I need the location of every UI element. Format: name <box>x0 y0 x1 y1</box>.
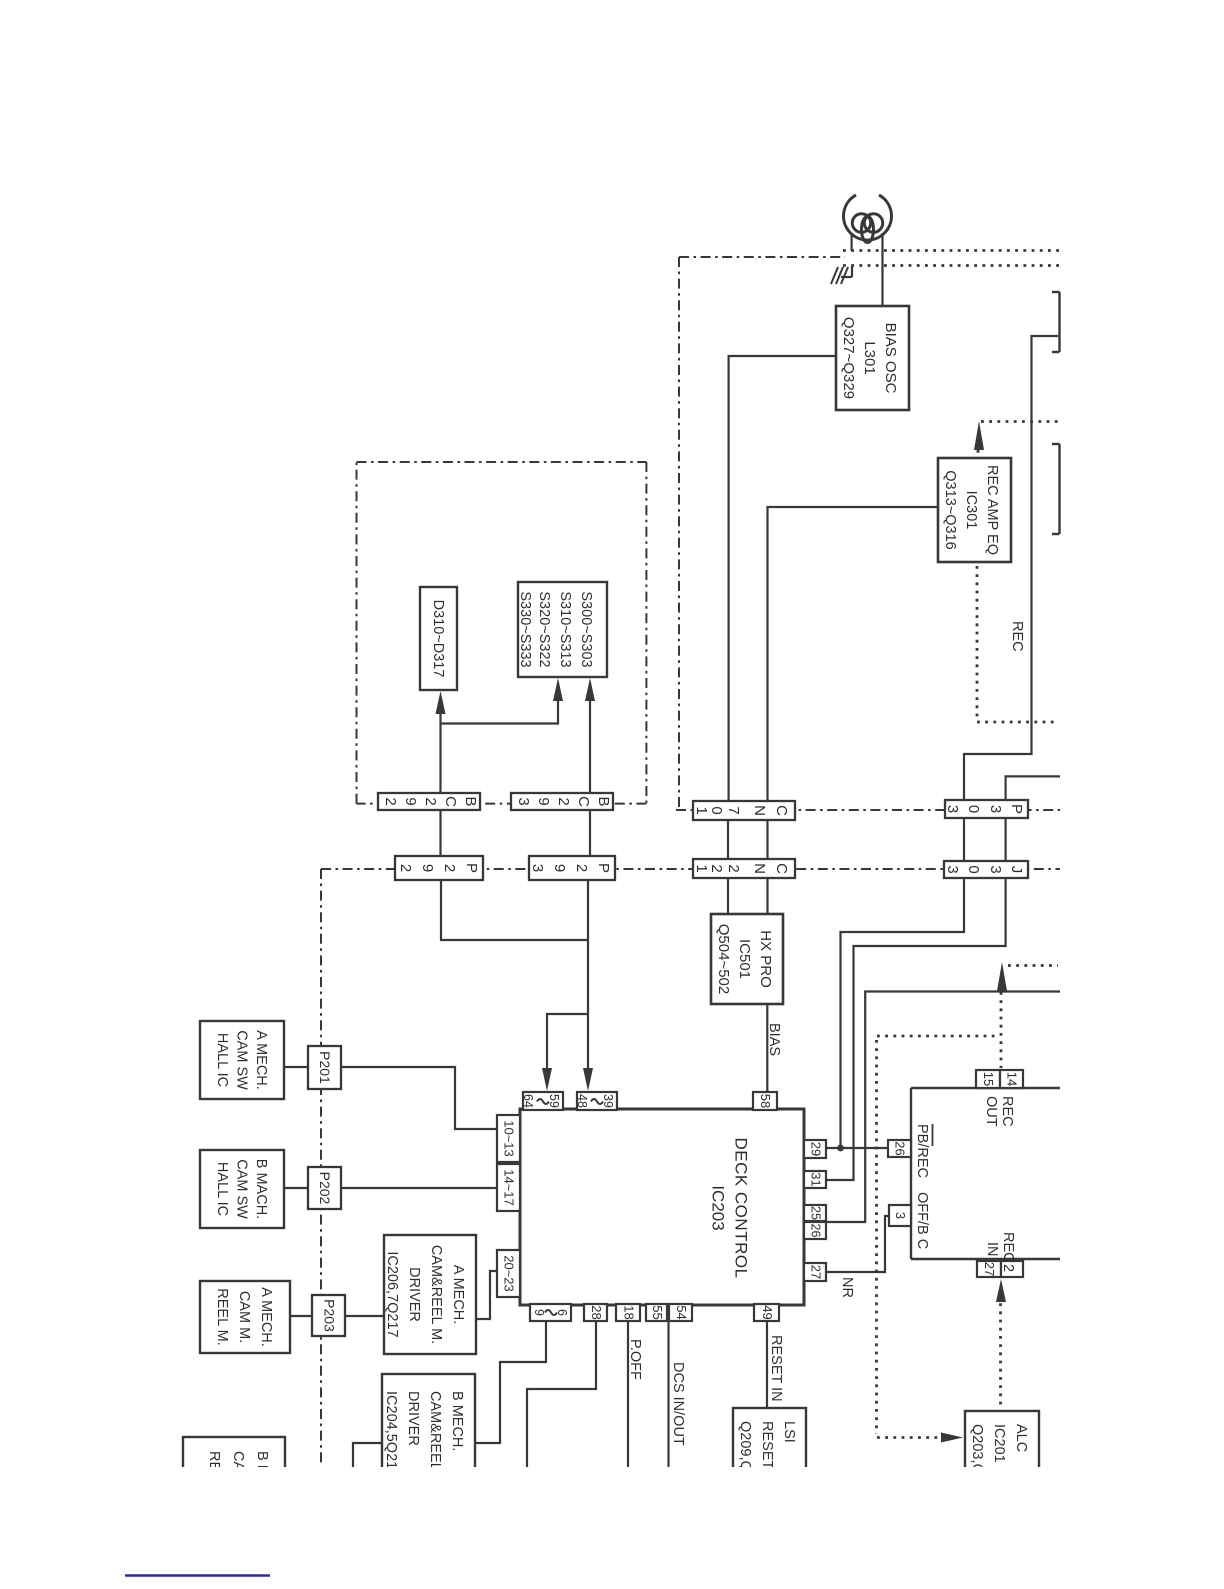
arrow down into pin 59-64 <box>542 1068 552 1091</box>
dotted path long vertical to ALC block <box>875 1040 878 1434</box>
svg-text:REC: REC <box>1000 1232 1016 1263</box>
wire IC203 pin 29 to amp pin 26 <box>826 1147 888 1149</box>
wire HX PRO BIAS output to IC203 pin 58 <box>766 1004 768 1093</box>
block HX PRO IC501 <box>711 914 783 1004</box>
svg-text:49: 49 <box>760 1305 775 1319</box>
svg-text:55: 55 <box>650 1305 665 1319</box>
amp pin box 26 PB/REC <box>888 1140 911 1157</box>
svg-text:N: N <box>751 863 768 874</box>
scan crop mask right <box>1062 0 1224 1584</box>
wire REC AMP EQ to CN701 <box>768 507 940 801</box>
svg-text:3: 3 <box>944 805 961 813</box>
wire through P303/J303 right pins <box>1004 818 1006 861</box>
svg-text:S300~S303: S300~S303 <box>578 591 594 667</box>
svg-text:S320~S322: S320~S322 <box>536 591 552 667</box>
svg-text:N: N <box>751 805 768 816</box>
svg-text:OUT: OUT <box>983 1096 999 1127</box>
connector P201 <box>308 1046 341 1089</box>
svg-text:14: 14 <box>1005 1072 1020 1086</box>
dotted shielded pair lower run to erase head <box>843 264 1059 267</box>
arrow up into D310-D317 box <box>436 691 446 714</box>
wire IC203 pin 27 NR to amp pin 3 <box>826 1216 890 1272</box>
connector CN701 <box>693 801 795 820</box>
svg-text:P203: P203 <box>322 1299 338 1332</box>
connector P292 <box>395 856 483 880</box>
svg-text:CAM SW: CAM SW <box>234 1030 250 1090</box>
svg-text:CAM M.: CAM M. <box>236 1291 252 1343</box>
dotted REC path stub into REC AMP EQ box top <box>977 450 980 459</box>
wire P292 down and right <box>441 880 588 940</box>
svg-text:J: J <box>1008 866 1025 874</box>
wire B MACH hall IC to P202 <box>284 1187 308 1189</box>
amp pin box 2 <box>1001 1261 1023 1277</box>
svg-text:64: 64 <box>521 1094 535 1108</box>
wire IC203 pin 18 P.OFF down <box>627 1322 629 1467</box>
IC203 pin box 54 <box>669 1304 692 1321</box>
svg-text:Q313~Q316: Q313~Q316 <box>942 470 958 549</box>
svg-text:29: 29 <box>809 1142 824 1156</box>
svg-text:3: 3 <box>944 865 961 873</box>
IC203 pin box 6-9 with jumper squiggle <box>530 1304 571 1321</box>
wire P201 to IC203 pins 10-13 <box>341 1067 497 1129</box>
connector P203 <box>312 1295 345 1336</box>
wire IC203 pin 28 down <box>527 1321 596 1467</box>
svg-text:P201: P201 <box>317 1051 333 1084</box>
svg-text:IC201: IC201 <box>991 1424 1007 1463</box>
wire CN701 to CN221 left pin <box>727 820 729 859</box>
svg-text:IC301: IC301 <box>963 491 979 530</box>
block LSI RESET Q209 (clipped) <box>733 1408 806 1478</box>
amp pin box 14 <box>1000 1070 1023 1088</box>
svg-text:OFF/B C: OFF/B C <box>914 1192 930 1249</box>
svg-text:31: 31 <box>809 1172 824 1186</box>
wire P303 left pin to REC head bracket <box>964 336 1058 800</box>
dotted PB path vertical into REC OUT pins <box>1000 992 1003 1068</box>
svg-text:CAM SW: CAM SW <box>234 1159 250 1219</box>
svg-text:CAM&REEL M.: CAM&REEL M. <box>428 1245 444 1344</box>
dotted REC path lower horizontal run <box>977 721 1059 724</box>
wire BC293 to P293 <box>589 810 591 856</box>
IC203 pin box 28 <box>584 1304 607 1321</box>
svg-text:54: 54 <box>674 1305 689 1319</box>
blue underline mark at bottom <box>125 1574 270 1577</box>
IC203 pin box 14-17 <box>497 1164 520 1211</box>
wire IC203 pin 49 to LSI reset box <box>766 1321 768 1408</box>
IC203 pin box 26 <box>804 1222 826 1239</box>
svg-text:B MECH.: B MECH. <box>449 1391 465 1451</box>
svg-text:RESET IN: RESET IN <box>768 1335 784 1402</box>
svg-text:PB/REC: PB/REC <box>914 1124 930 1178</box>
arrow down into pin 39-48 <box>583 1068 593 1091</box>
connector P293 <box>529 856 615 880</box>
wire J303 right pin to IC203 pin 31 <box>826 878 1006 1180</box>
record/play amp block edges (clipped at right) <box>911 1088 1060 1259</box>
svg-text:C: C <box>575 796 592 807</box>
svg-text:BIAS OSC: BIAS OSC <box>882 323 899 394</box>
IC203 pin box 27 <box>804 1263 826 1281</box>
svg-text:2: 2 <box>725 864 742 872</box>
scan crop mask bottom <box>0 1467 1224 1584</box>
svg-text:S310~S313: S310~S313 <box>557 591 573 667</box>
svg-text:0: 0 <box>965 865 982 873</box>
svg-text:Q504~502: Q504~502 <box>715 924 732 994</box>
arrow up on PB dotted path <box>997 962 1007 991</box>
block REC AMP EQ IC301 <box>938 458 1011 562</box>
wire through P303/J303 left pins <box>963 818 965 861</box>
svg-text:D310~D317: D310~D317 <box>430 600 446 678</box>
svg-text:IN: IN <box>984 1242 1000 1257</box>
svg-text:1: 1 <box>693 806 710 814</box>
svg-text:REEL M.: REEL M. <box>214 1288 230 1345</box>
arrow right into ALC box <box>941 1433 963 1443</box>
amp pin box 27 REC 2 IN <box>977 1261 1001 1277</box>
wire A driver box to IC203 pins 20-23 <box>476 1271 497 1319</box>
IC203 pin box 18 <box>616 1304 640 1321</box>
svg-text:DRIVER: DRIVER <box>405 1391 421 1446</box>
svg-text:58: 58 <box>758 1094 773 1108</box>
svg-text:15: 15 <box>981 1072 996 1086</box>
arrow up into S300 box right <box>585 678 595 701</box>
svg-text:2: 2 <box>555 797 572 805</box>
svg-text:C: C <box>773 863 790 874</box>
svg-text:REC AMP EQ: REC AMP EQ <box>984 465 1000 555</box>
svg-text:9: 9 <box>419 864 436 872</box>
svg-text:B: B <box>595 796 612 806</box>
IC203 pin box 55 <box>646 1304 667 1321</box>
svg-text:DCS IN/OUT: DCS IN/OUT <box>670 1362 686 1446</box>
svg-text:3: 3 <box>893 1212 908 1219</box>
svg-text:9: 9 <box>551 864 568 872</box>
svg-text:20~23: 20~23 <box>502 1255 517 1292</box>
dotted PB path horizontal to right edge <box>1008 964 1058 967</box>
block D310-D317 diodes <box>420 587 457 690</box>
svg-text:59: 59 <box>547 1094 561 1108</box>
svg-text:IC501: IC501 <box>736 939 753 979</box>
svg-text:IC206,7Q217: IC206,7Q217 <box>384 1251 400 1337</box>
svg-text:2: 2 <box>441 864 458 872</box>
svg-text:S330~S333: S330~S333 <box>517 591 533 667</box>
block A MECH CAM SW HALL IC <box>200 1021 284 1099</box>
dotted REC path upper segment from arrow to right edge <box>981 420 1059 423</box>
svg-text:3: 3 <box>529 864 546 872</box>
dash-dot main board boundary row through P292 P293 CN221 J303 <box>321 868 1060 870</box>
svg-text:P.OFF: P.OFF <box>627 1339 643 1380</box>
svg-text:39: 39 <box>601 1094 615 1108</box>
svg-text:B MACH.: B MACH. <box>253 1159 269 1219</box>
block A MECH CAM M REEL M <box>200 1281 290 1353</box>
svg-text:P: P <box>595 863 612 873</box>
dash-dot main board boundary left edge through P201 P202 P203 <box>320 869 322 1466</box>
svg-text:DECK CONTROL: DECK CONTROL <box>732 1137 751 1278</box>
svg-text:2: 2 <box>382 797 399 805</box>
svg-text:28: 28 <box>589 1305 604 1319</box>
dotted PB path horizontal joint <box>877 1035 1000 1038</box>
svg-text:HALL IC: HALL IC <box>214 1162 230 1216</box>
block B MECH CAM M REEL M (clipped) <box>183 1437 285 1478</box>
wire CN221 to HX PRO right pin <box>766 878 768 914</box>
IC203 pin box 58 <box>753 1092 777 1110</box>
svg-text:2: 2 <box>397 864 414 872</box>
IC203 pin box 49 <box>754 1304 779 1321</box>
erase head symbol (coil and core) <box>844 195 892 243</box>
svg-text:26: 26 <box>893 1141 908 1155</box>
wire BIAS OSC to CN701 pin <box>729 356 836 801</box>
block B MACH CAM SW HALL IC <box>200 1150 284 1228</box>
dotted REC path from REC AMP EQ bottom <box>976 566 979 719</box>
amp pin box 3 OFF/B C <box>889 1205 911 1226</box>
svg-text:LSI: LSI <box>781 1421 797 1443</box>
block ALC IC201 Q203 (clipped) <box>965 1411 1039 1478</box>
svg-text:9: 9 <box>402 797 419 805</box>
svg-text:HALL IC: HALL IC <box>214 1033 230 1087</box>
svg-text:3: 3 <box>515 797 532 805</box>
svg-text:2: 2 <box>573 864 590 872</box>
dotted path horizontal into ALC box <box>877 1436 949 1439</box>
amp pin box 15 <box>976 1070 1000 1088</box>
wire CN221 to HX PRO left pin <box>727 878 729 914</box>
svg-text:IC204,5Q21: IC204,5Q21 <box>383 1391 399 1469</box>
IC203 pin box 39-48 with jumper squiggle <box>577 1092 617 1110</box>
connector BC292 <box>378 793 480 810</box>
connector P202 <box>308 1167 341 1209</box>
wire erase head left leg <box>850 233 852 251</box>
connector CN221 <box>693 859 795 878</box>
svg-text:25: 25 <box>809 1206 823 1220</box>
svg-text:9: 9 <box>532 1309 546 1316</box>
svg-text:C: C <box>442 796 459 807</box>
arrow up into S300 box left <box>553 678 563 701</box>
svg-text:1: 1 <box>693 864 710 872</box>
IC203 pin box 29 <box>804 1140 826 1158</box>
dotted path vertical from ALC to REC 2 IN <box>999 1295 1002 1406</box>
wire branch to S300 box <box>441 700 559 724</box>
svg-text:26: 26 <box>809 1224 823 1238</box>
svg-text:DRIVER: DRIVER <box>406 1267 422 1322</box>
junction dot on pin 29 wire <box>837 1145 844 1152</box>
svg-text:P: P <box>1008 804 1025 814</box>
dash-dot boundary of switch module (S300/D310 block) <box>357 462 647 804</box>
svg-text:NR: NR <box>839 1277 855 1298</box>
svg-text:6: 6 <box>555 1309 569 1316</box>
tape head bracket upper (REC head) <box>1052 292 1060 352</box>
wire A MECH hall IC to P201 <box>284 1066 308 1068</box>
wire stub to clipped lower-left box <box>353 1443 382 1467</box>
IC203 pin box 31 <box>804 1171 826 1188</box>
svg-text:CAM&REEL: CAM&REEL <box>427 1391 443 1471</box>
chassis ground at shield <box>831 266 852 284</box>
svg-text:B: B <box>462 796 479 806</box>
wire IC203 pins 55/54 DCS line down <box>667 1322 669 1467</box>
dash-dot boundary of head/bias module (corner at top) <box>679 257 845 810</box>
wire BC292 to P292 <box>439 810 441 856</box>
svg-text:HX PRO: HX PRO <box>757 930 774 988</box>
arrow up on REC dotted path above REC AMP EQ <box>974 421 984 450</box>
wire CN701 to CN221 right pin <box>766 820 768 859</box>
svg-text:RESET: RESET <box>759 1421 775 1469</box>
svg-text:27: 27 <box>982 1262 997 1276</box>
svg-text:9: 9 <box>535 797 552 805</box>
IC203 DECK CONTROL box <box>520 1109 804 1305</box>
svg-text:P202: P202 <box>317 1172 333 1205</box>
wire P202 to IC203 pins 14-17 <box>341 1187 497 1189</box>
svg-text:A MECH.: A MECH. <box>253 1030 269 1090</box>
dash-dot board boundary row through CN701 and P303 <box>676 809 1060 811</box>
svg-text:2: 2 <box>422 797 439 805</box>
svg-text:Q327~Q329: Q327~Q329 <box>840 317 857 399</box>
svg-text:7: 7 <box>725 806 742 814</box>
svg-text:2: 2 <box>1000 1264 1016 1272</box>
wire branch to IC203 pin 59-64 <box>547 1014 588 1070</box>
arrow up into REC 2 IN pin 27 <box>996 1279 1006 1302</box>
connector P303 <box>945 800 1028 818</box>
svg-text:REC: REC <box>1009 621 1025 652</box>
block A MECH CAM&REEL M DRIVER IC206,7Q217 <box>384 1235 476 1354</box>
svg-text:18: 18 <box>622 1305 637 1319</box>
svg-text:P: P <box>463 863 480 873</box>
svg-text:48: 48 <box>575 1094 589 1108</box>
wire IC203 pins 6-9 to B driver box <box>475 1321 546 1443</box>
wire BC293 up to S300 box <box>589 700 591 793</box>
svg-text:C: C <box>773 805 790 816</box>
IC203 pin box 59-64 with jumper squiggle <box>523 1092 563 1110</box>
svg-text:L301: L301 <box>861 341 878 374</box>
svg-text:A MECH.: A MECH. <box>450 1265 466 1325</box>
wire A MECH cam reel to P203 <box>290 1315 312 1317</box>
svg-text:IC203: IC203 <box>709 1185 728 1230</box>
svg-text:BIAS: BIAS <box>766 1023 782 1056</box>
wire P293 down to IC203 pin 39-48 <box>587 880 589 1070</box>
wire P303 right pin to right edge <box>1006 776 1060 800</box>
block S300-S333 switches <box>518 582 607 677</box>
wire J303 left pin to pin29 node <box>841 878 965 1148</box>
svg-text:ALC: ALC <box>1013 1424 1029 1452</box>
svg-text:27: 27 <box>809 1265 824 1279</box>
IC203 pin box 10-13 <box>497 1115 520 1162</box>
wire P203 to A driver box <box>345 1315 384 1317</box>
svg-text:REC: REC <box>999 1096 1015 1127</box>
wire IC203 pins 25/26 to right edge <box>826 992 1060 1223</box>
IC203 pin box 20-23 <box>497 1250 520 1297</box>
wire erase head right leg to BIAS OSC <box>881 233 883 306</box>
svg-text:3: 3 <box>987 865 1004 873</box>
svg-text:14~17: 14~17 <box>502 1169 517 1206</box>
block B MECH CAM&REEL DRIVER IC204,5 (clipped) <box>382 1374 475 1478</box>
svg-text:10~13: 10~13 <box>502 1120 517 1157</box>
connector J303 <box>944 861 1028 878</box>
svg-text:A MECH.: A MECH. <box>258 1287 274 1347</box>
svg-text:0: 0 <box>965 805 982 813</box>
tape head bracket lower (PB head) <box>1052 444 1060 534</box>
connector BC293 <box>511 793 613 810</box>
svg-text:3: 3 <box>987 805 1004 813</box>
IC203 pin box 25 <box>804 1205 826 1221</box>
dotted shielded pair upper run to erase head <box>843 249 1059 252</box>
wire into D310-D317 box with arrow <box>439 700 441 793</box>
block BIAS OSC L301 <box>836 306 909 410</box>
